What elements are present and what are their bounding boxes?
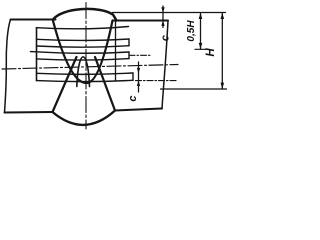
bar1 end cap — [128, 39, 130, 46]
line y27.7 — [37, 27, 129, 29]
bottom weld cap — [53, 111, 116, 125]
upper groove left wall — [53, 21, 86, 83]
bar1 top line — [37, 39, 130, 40]
left bars vertical — [36, 28, 38, 81]
vertical centerline — [85, 3, 87, 130]
dim c mid: line — [138, 62, 140, 92]
svg-text:0,5H: 0,5H — [186, 20, 197, 42]
dim c top arrows — [161, 7, 164, 12]
left plate top surface — [11, 19, 56, 21]
upper groove right wall — [87, 21, 113, 84]
right plate bottom surface — [115, 109, 162, 111]
bar2 centerline dash-dot right extension — [129, 54, 152, 56]
left plate left edge (break) — [5, 20, 11, 113]
bar3 bottom dash-dot extension — [136, 80, 179, 82]
welded X-groove joint cross-section drawing — [0, 0, 227, 136]
top weld cap — [53, 9, 117, 21]
dim c mid arrows — [137, 68, 140, 73]
svg-text:c: c — [127, 95, 139, 101]
bar2 bottom line — [37, 59, 130, 60]
dim H: bottom extension line — [161, 88, 227, 90]
dim c top: line — [162, 6, 164, 28]
top extension thin line — [113, 12, 226, 14]
bar2 top line — [30, 52, 129, 54]
bar3 top line — [37, 73, 134, 74]
right plate top surface — [113, 20, 168, 22]
bar3 end cap — [132, 73, 134, 80]
joint horizontal centerline dash-dot — [2, 65, 178, 70]
dim H: line — [221, 13, 223, 89]
svg-text:c: c — [160, 35, 172, 41]
dim 0,5H: line — [200, 13, 202, 50]
bar3 bottom line — [37, 80, 134, 81]
right plate right edge (break) — [162, 21, 168, 109]
lower groove right wall — [95, 57, 115, 111]
dim 0,5H: bottom extension line — [195, 48, 207, 50]
svg-text:H: H — [205, 48, 217, 57]
lower groove left wall — [53, 57, 77, 112]
left plate bottom surface — [5, 111, 53, 114]
dim H arrows — [221, 13, 225, 19]
bar1 bottom line — [37, 46, 130, 47]
dim 0,5H arrows — [199, 13, 203, 19]
bar2 end cap — [128, 52, 130, 59]
root bead arch — [77, 57, 90, 87]
right bars vertical — [115, 21, 117, 81]
